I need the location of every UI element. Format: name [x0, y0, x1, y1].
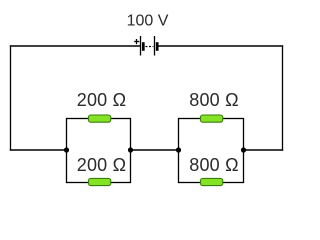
svg-text:200 Ω: 200 Ω	[77, 155, 127, 175]
svg-text:800 Ω: 800 Ω	[189, 90, 239, 110]
svg-text:100 V: 100 V	[127, 12, 169, 29]
svg-text:200 Ω: 200 Ω	[77, 90, 127, 110]
svg-text:800 Ω: 800 Ω	[189, 155, 239, 175]
